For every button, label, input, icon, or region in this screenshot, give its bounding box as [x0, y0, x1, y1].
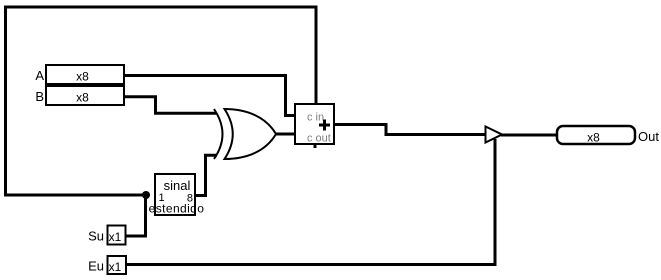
wire Su to junction [125, 195, 146, 236]
carry-out pin stub [314, 144, 317, 148]
svg-text:Su: Su [88, 229, 104, 244]
label Out [638, 129, 659, 144]
wire buffer output to Out pin [501, 134, 556, 137]
svg-text:x8: x8 [76, 70, 89, 84]
XOR gate U1 [214, 109, 276, 159]
input pin Eu (x1) [108, 256, 127, 274]
wire XOR output to adder input [276, 133, 295, 136]
controlled buffer Q1 (tri-state) [486, 127, 503, 143]
svg-text:B: B [35, 89, 44, 104]
input pin A (x8) [46, 65, 124, 84]
plus symbol of adder [319, 120, 330, 131]
label Eu [88, 259, 104, 274]
svg-text:c in: c in [307, 112, 324, 124]
label A [35, 68, 44, 83]
junction node (Su / extender / carry loop) [142, 191, 150, 199]
svg-text:Eu: Eu [88, 259, 104, 274]
svg-text:sinal: sinal [164, 178, 191, 193]
svg-text:x1: x1 [109, 230, 122, 244]
svg-text:Out: Out [638, 129, 659, 144]
svg-text:x8: x8 [76, 91, 89, 105]
input pin Su (x1) [108, 226, 126, 245]
wire Eu to buffer enable [126, 139, 495, 265]
adder U2 (+, c in / c out) [295, 104, 334, 148]
svg-text:c out: c out [307, 133, 331, 145]
svg-text:estendido: estendido [149, 202, 205, 216]
svg-text:A: A [35, 68, 44, 83]
wire adder output to buffer input [334, 125, 486, 135]
wire A output to adder input [124, 76, 295, 116]
svg-text:x8: x8 [587, 131, 600, 145]
svg-text:x1: x1 [109, 260, 122, 274]
bit extender U3 (sinal estendido, 1 -> 8) [149, 174, 205, 216]
wire Su-to-carry-in loop (left, top, right legs) [6, 7, 317, 195]
wire extender output to XOR lower input [195, 155, 217, 195]
output pin Out (x8) [557, 126, 635, 145]
wire B output to XOR upper input [124, 97, 217, 113]
label B [35, 89, 44, 104]
input pin B (x8) [46, 86, 124, 105]
label Su [88, 229, 104, 244]
